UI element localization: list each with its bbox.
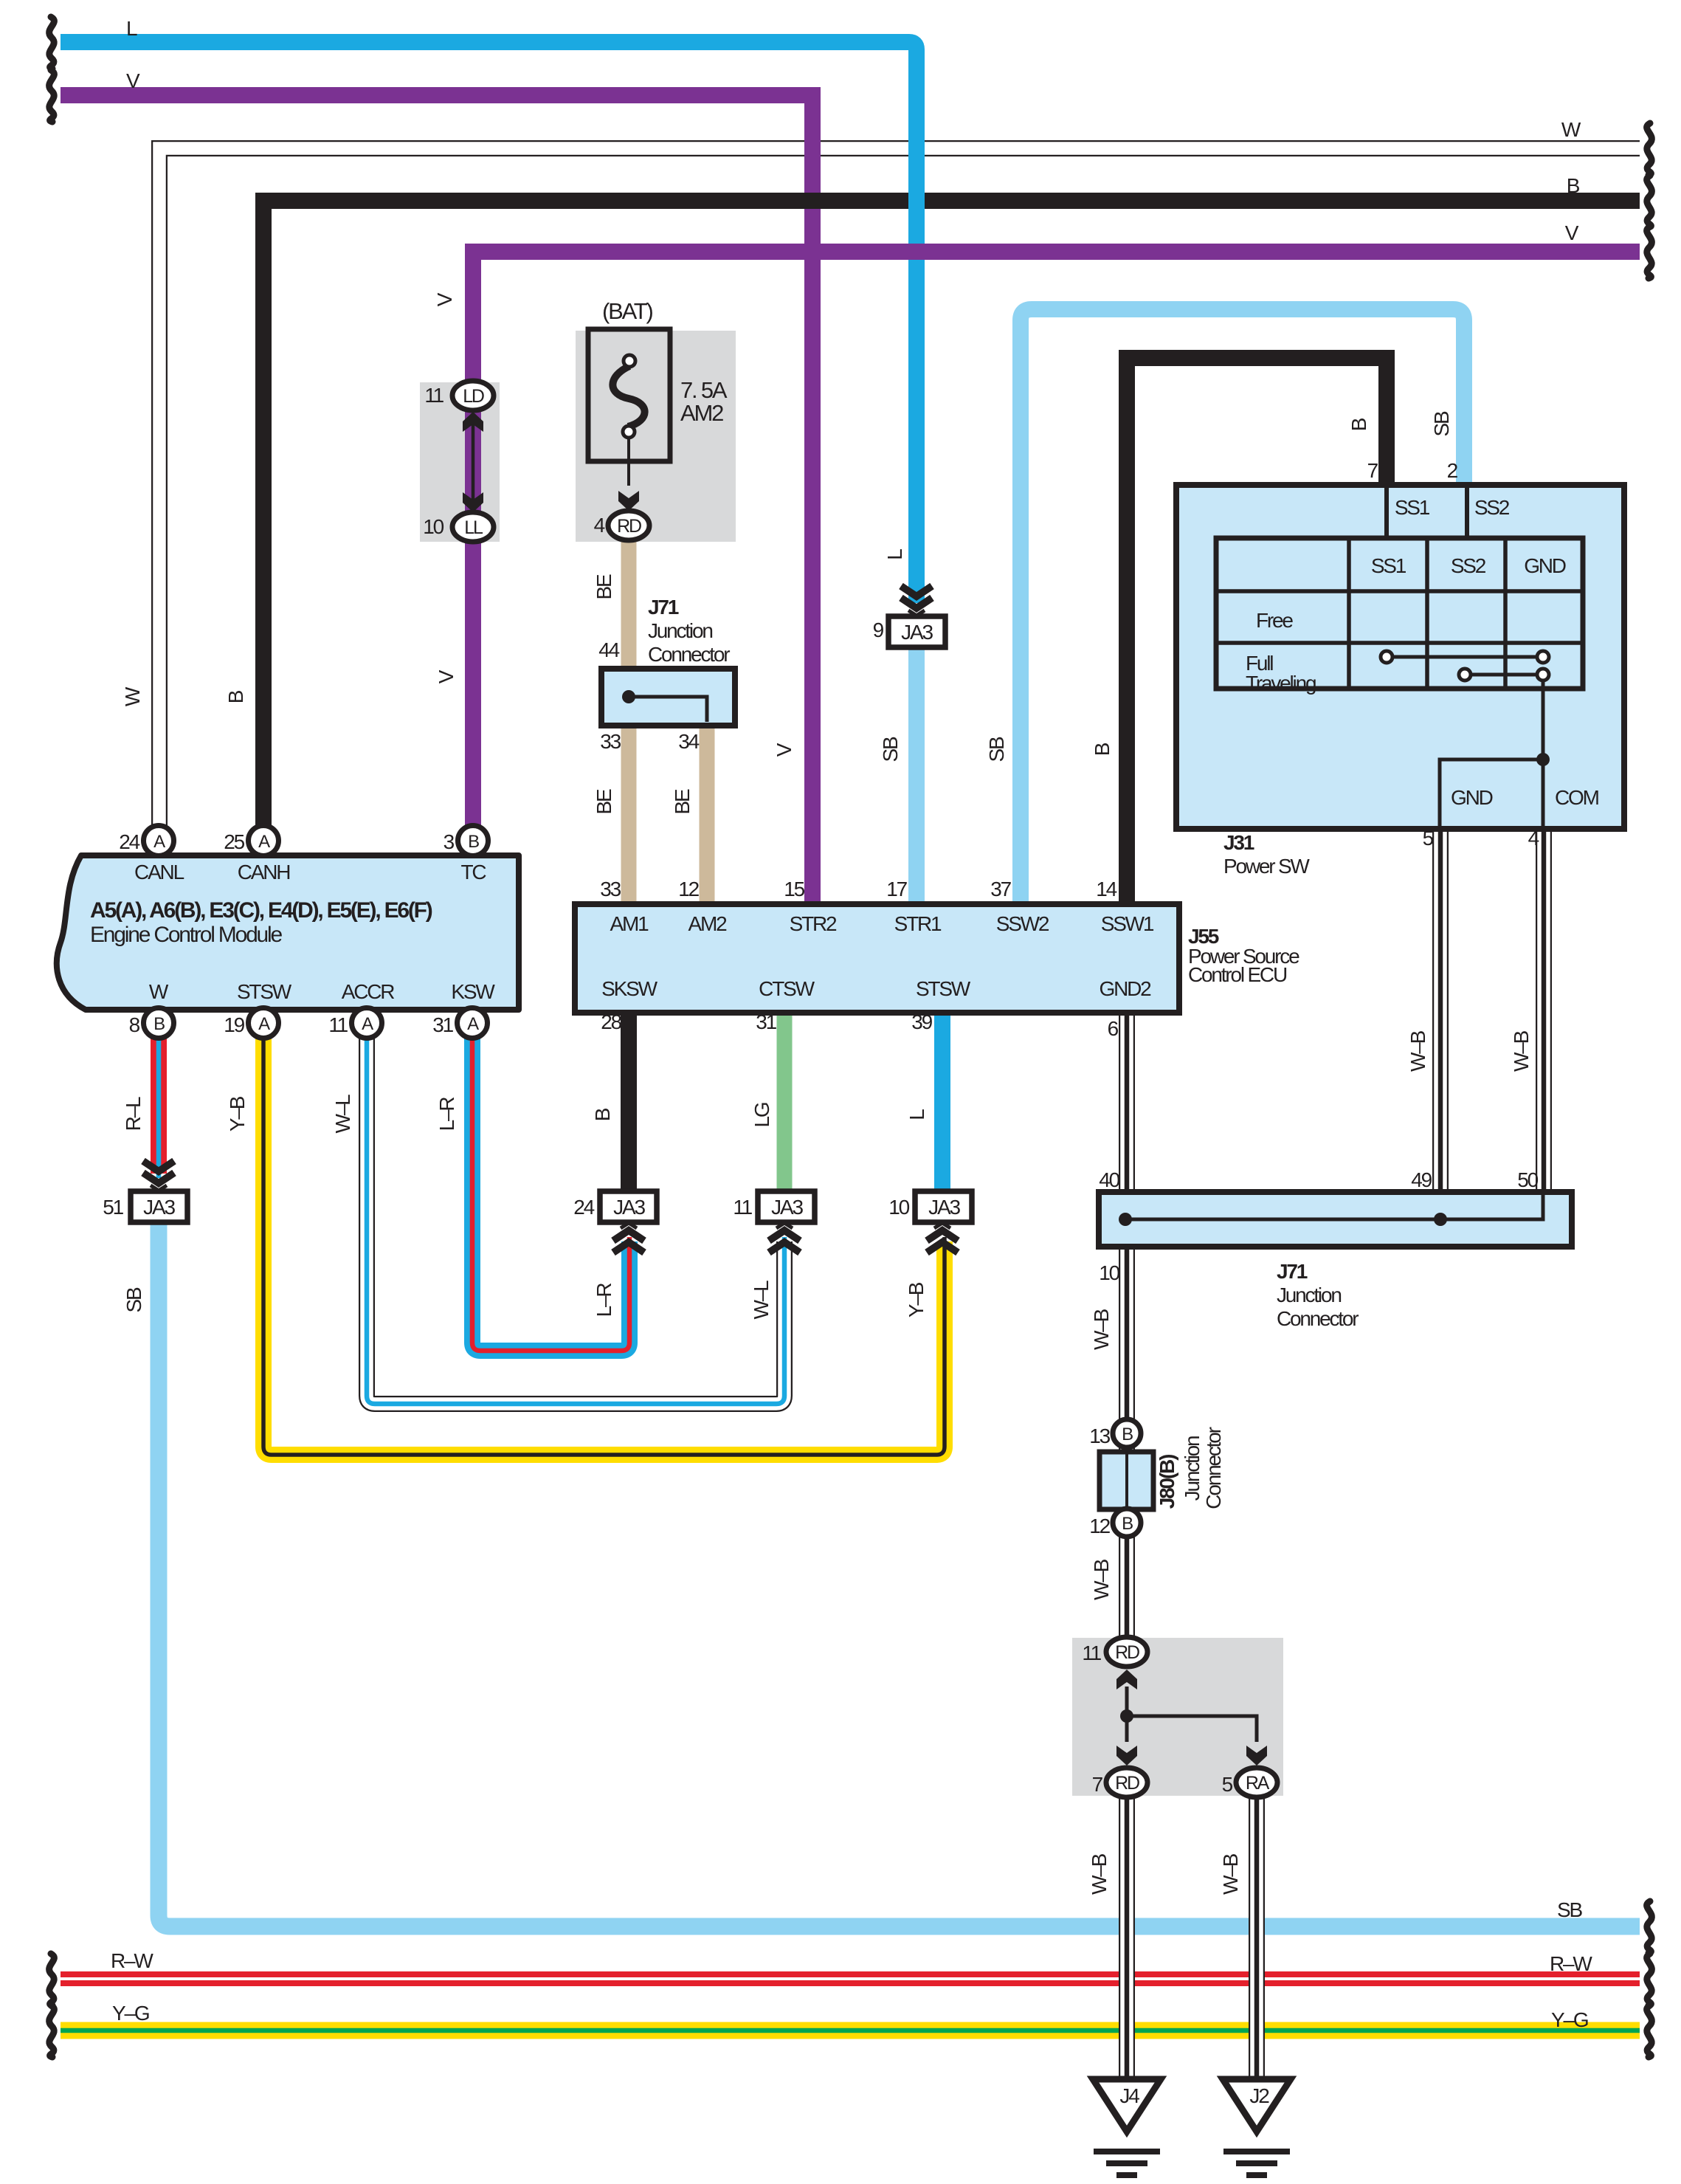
svg-text:Junction: Junction: [648, 619, 712, 642]
svg-text:J80(B): J80(B): [1156, 1455, 1178, 1509]
svg-text:5: 5: [1423, 827, 1434, 850]
svg-text:LG: LG: [750, 1103, 773, 1127]
svg-text:GND2: GND2: [1100, 977, 1152, 1000]
svg-text:10: 10: [423, 515, 443, 538]
svg-text:STSW: STSW: [237, 980, 292, 1003]
svg-text:B: B: [1347, 418, 1370, 431]
svg-text:SS2: SS2: [1474, 496, 1510, 519]
svg-text:37: 37: [990, 878, 1011, 900]
svg-text:SB: SB: [1430, 411, 1453, 436]
svg-text:B: B: [224, 690, 247, 703]
svg-text:4: 4: [1528, 827, 1539, 850]
svg-text:Junction: Junction: [1181, 1436, 1204, 1501]
svg-text:Y–B: Y–B: [226, 1096, 249, 1131]
svg-text:V: V: [433, 292, 456, 306]
svg-text:W–B: W–B: [1090, 1559, 1113, 1600]
svg-text:ACCR: ACCR: [342, 980, 395, 1003]
svg-text:24: 24: [573, 1196, 594, 1219]
svg-text:39: 39: [911, 1010, 932, 1033]
svg-text:W–L: W–L: [331, 1095, 354, 1134]
svg-text:19: 19: [224, 1013, 244, 1036]
svg-text:50: 50: [1517, 1168, 1538, 1191]
svg-text:RD: RD: [617, 516, 641, 537]
svg-text:J31: J31: [1223, 831, 1254, 854]
svg-text:L: L: [126, 17, 137, 40]
svg-text:AM2: AM2: [680, 400, 723, 426]
svg-text:SKSW: SKSW: [601, 977, 657, 1000]
svg-text:W: W: [121, 686, 144, 706]
svg-text:V: V: [435, 669, 458, 683]
svg-text:Engine Control Module: Engine Control Module: [90, 923, 283, 947]
svg-text:L: L: [883, 549, 906, 560]
svg-text:SS1: SS1: [1371, 554, 1406, 577]
svg-text:L–R: L–R: [435, 1098, 458, 1131]
svg-text:W–B: W–B: [1219, 1853, 1242, 1895]
svg-text:J71: J71: [1277, 1260, 1308, 1283]
svg-text:28: 28: [601, 1010, 621, 1033]
svg-text:10: 10: [888, 1196, 909, 1219]
svg-text:33: 33: [600, 878, 621, 900]
svg-text:Junction: Junction: [1277, 1284, 1341, 1306]
svg-text:V: V: [1565, 221, 1579, 244]
svg-text:2: 2: [1447, 459, 1458, 482]
svg-text:12: 12: [678, 878, 699, 900]
svg-text:RA: RA: [1246, 1773, 1270, 1794]
svg-text:Free: Free: [1256, 609, 1293, 632]
svg-text:Control ECU: Control ECU: [1188, 963, 1287, 986]
svg-text:W–L: W–L: [750, 1281, 773, 1320]
svg-text:25: 25: [224, 830, 244, 853]
svg-text:AM1: AM1: [610, 912, 649, 935]
svg-text:A5(A), A6(B), E3(C), E4(D), E5: A5(A), A6(B), E3(C), E4(D), E5(E), E6(F): [90, 898, 432, 923]
svg-text:W–B: W–B: [1510, 1030, 1533, 1072]
svg-text:A: A: [258, 832, 270, 852]
svg-text:STSW: STSW: [916, 977, 971, 1000]
svg-text:Power SW: Power SW: [1223, 855, 1310, 878]
svg-text:JA3: JA3: [901, 621, 933, 644]
svg-text:49: 49: [1411, 1168, 1432, 1191]
svg-text:A: A: [258, 1014, 270, 1034]
svg-text:7: 7: [1367, 459, 1378, 482]
svg-text:10: 10: [1099, 1261, 1119, 1284]
svg-text:J4: J4: [1119, 2084, 1139, 2107]
svg-text:L: L: [905, 1109, 928, 1120]
svg-text:14: 14: [1096, 878, 1116, 900]
svg-text:JA3: JA3: [143, 1196, 175, 1219]
svg-text:11: 11: [328, 1013, 348, 1036]
svg-text:31: 31: [432, 1013, 453, 1036]
svg-text:9: 9: [873, 619, 884, 641]
svg-text:Traveling: Traveling: [1246, 672, 1316, 695]
svg-text:SSW2: SSW2: [996, 912, 1049, 935]
svg-text:11: 11: [1082, 1642, 1101, 1664]
svg-text:R–W: R–W: [1550, 1952, 1592, 1975]
svg-text:A: A: [153, 832, 165, 852]
svg-text:LL: LL: [464, 517, 483, 538]
svg-text:SB: SB: [1557, 1898, 1582, 1921]
svg-text:15: 15: [784, 878, 804, 900]
svg-text:STR2: STR2: [790, 912, 837, 935]
svg-text:B: B: [1122, 1514, 1133, 1534]
svg-text:JA3: JA3: [771, 1196, 803, 1219]
svg-text:SS2: SS2: [1451, 554, 1486, 577]
svg-text:JA3: JA3: [928, 1196, 960, 1219]
svg-text:(BAT): (BAT): [602, 298, 653, 324]
svg-text:12: 12: [1089, 1515, 1110, 1537]
svg-text:3: 3: [443, 830, 455, 853]
svg-text:40: 40: [1099, 1168, 1119, 1191]
svg-text:33: 33: [600, 730, 621, 753]
svg-text:COM: COM: [1555, 786, 1599, 809]
svg-text:W: W: [1561, 118, 1581, 141]
svg-text:W–B: W–B: [1406, 1030, 1429, 1072]
svg-text:11: 11: [733, 1196, 752, 1219]
svg-text:SB: SB: [985, 737, 1008, 762]
svg-text:R–W: R–W: [111, 1949, 153, 1972]
svg-text:Connector: Connector: [1202, 1427, 1225, 1509]
svg-text:CANL: CANL: [134, 861, 184, 883]
svg-text:51: 51: [103, 1196, 123, 1219]
svg-text:BE: BE: [593, 574, 615, 599]
svg-text:STR1: STR1: [894, 912, 942, 935]
svg-text:RD: RD: [1115, 1642, 1139, 1663]
svg-text:SB: SB: [122, 1287, 145, 1312]
svg-text:4: 4: [594, 514, 605, 537]
svg-text:5: 5: [1222, 1773, 1233, 1796]
svg-text:B: B: [591, 1108, 614, 1121]
svg-text:SB: SB: [879, 737, 902, 762]
svg-text:34: 34: [678, 730, 699, 753]
svg-text:SS1: SS1: [1395, 496, 1430, 519]
svg-text:24: 24: [119, 830, 139, 853]
svg-text:17: 17: [886, 878, 907, 900]
svg-text:Y–B: Y–B: [905, 1282, 928, 1317]
svg-text:LD: LD: [463, 386, 484, 407]
svg-text:7: 7: [1092, 1773, 1103, 1796]
svg-text:AM2: AM2: [688, 912, 728, 935]
svg-text:GND: GND: [1451, 786, 1493, 809]
svg-text:TC: TC: [461, 861, 487, 883]
svg-text:GND: GND: [1524, 554, 1566, 577]
svg-text:44: 44: [598, 638, 619, 661]
svg-text:V: V: [126, 69, 140, 92]
svg-text:Connector: Connector: [648, 643, 730, 666]
svg-text:L–R: L–R: [593, 1284, 615, 1317]
svg-text:7. 5A: 7. 5A: [680, 377, 728, 403]
svg-text:CANH: CANH: [238, 861, 290, 883]
svg-text:Y–G: Y–G: [112, 2002, 149, 2025]
svg-text:V: V: [773, 743, 795, 757]
svg-text:SSW1: SSW1: [1101, 912, 1154, 935]
svg-text:6: 6: [1108, 1017, 1119, 1040]
svg-text:Connector: Connector: [1277, 1307, 1359, 1330]
svg-text:8: 8: [129, 1013, 140, 1036]
svg-text:J2: J2: [1249, 2084, 1269, 2107]
svg-text:R–L: R–L: [122, 1097, 145, 1131]
svg-text:A: A: [467, 1014, 479, 1034]
svg-text:W: W: [149, 980, 169, 1003]
svg-text:J71: J71: [648, 596, 679, 619]
svg-text:B: B: [1122, 1425, 1133, 1444]
svg-text:B: B: [1567, 174, 1580, 197]
svg-text:JA3: JA3: [613, 1196, 645, 1219]
svg-text:W–B: W–B: [1090, 1309, 1113, 1350]
svg-text:Y–G: Y–G: [1551, 2008, 1588, 2031]
svg-text:A: A: [362, 1014, 373, 1034]
svg-text:CTSW: CTSW: [759, 977, 815, 1000]
svg-text:BE: BE: [593, 789, 615, 814]
svg-text:BE: BE: [671, 789, 694, 814]
svg-text:31: 31: [756, 1010, 776, 1033]
svg-text:KSW: KSW: [451, 980, 495, 1003]
svg-text:13: 13: [1089, 1425, 1110, 1447]
svg-text:B: B: [468, 832, 479, 852]
svg-text:W–B: W–B: [1088, 1853, 1111, 1895]
svg-text:RD: RD: [1115, 1773, 1139, 1794]
svg-text:11: 11: [424, 384, 443, 407]
svg-text:B: B: [1091, 743, 1114, 756]
svg-text:B: B: [153, 1014, 165, 1034]
